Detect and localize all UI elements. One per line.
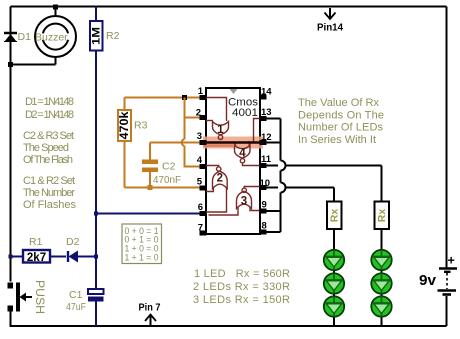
pin 13 stub: [260, 116, 267, 121]
svg-text:3: 3: [241, 196, 247, 208]
svg-text:Pin 7: Pin 7: [139, 303, 161, 314]
svg-text:470nF: 470nF: [153, 174, 181, 186]
IC notch: [230, 89, 238, 94]
pin 8 stub: [260, 230, 267, 235]
svg-text:3 LEDs Rx = 150R: 3 LEDs Rx = 150R: [193, 294, 290, 306]
junction buzzer bottom left rail: [8, 62, 13, 67]
svg-text:The Speed: The Speed: [23, 142, 69, 154]
wire R3 top to pin1 (orange): [125, 97, 201, 99]
pin 6 stub: [200, 211, 207, 216]
svg-text:470k: 470k: [119, 111, 131, 140]
pink highlight band pin3-pin12 net: [203, 137, 263, 149]
LED D5: [324, 296, 344, 316]
Pin14 annotation arrow: [325, 8, 336, 19]
svg-text:C2: C2: [162, 161, 176, 173]
svg-text:47uF: 47uF: [66, 301, 86, 313]
pin 10 stub: [260, 185, 267, 190]
Pin 7 annotation arrow: [145, 315, 156, 326]
svg-text:D2: D2: [66, 236, 80, 248]
wire pin10 to left Rx column: [266, 188, 334, 202]
hop over pin11 wire: [281, 161, 286, 171]
svg-text:9v: 9v: [419, 272, 437, 289]
pin 2 stub: [200, 115, 207, 120]
junction D2/C1 node: [94, 255, 98, 259]
svg-text:1M: 1M: [90, 27, 102, 45]
wire orange down to pin2: [184, 98, 186, 118]
svg-text:8: 8: [262, 221, 267, 232]
svg-text:Of Flashes: Of Flashes: [23, 199, 77, 211]
svg-text:Buzzer: Buzzer: [35, 32, 68, 44]
pin 1 stub: [200, 95, 207, 100]
wire R3/C2 bottom to pin5 (orange): [125, 187, 201, 189]
svg-text:+: +: [448, 254, 455, 268]
gate U1d input risers: [235, 142, 237, 145]
svg-text:R1: R1: [29, 236, 43, 248]
gate U1d output wire to pin11: [243, 163, 260, 166]
svg-text:2: 2: [196, 108, 201, 119]
gate U1d output bubble: [240, 159, 244, 163]
gate U1c (3) body pointing up: [237, 191, 252, 208]
gate U1b output wire to pin4: [206, 166, 219, 168]
gate U1b output bubble: [217, 167, 221, 171]
capacitor C1: [88, 289, 104, 326]
svg-text:Number Of LEDs: Number Of LEDs: [298, 122, 384, 134]
LED D3: [324, 250, 344, 270]
svg-text:1: 1: [217, 124, 224, 136]
svg-text:1 + 1 = 0: 1 + 1 = 0: [125, 253, 159, 264]
svg-text:7: 7: [198, 223, 203, 234]
The Value Of Rx text: [298, 97, 384, 146]
svg-text:11: 11: [261, 154, 272, 165]
svg-text:The Value Of Rx: The Value Of Rx: [298, 97, 380, 109]
svg-text:4: 4: [197, 155, 203, 166]
junction C2 bottom: [148, 185, 153, 190]
svg-text:2 LEDs Rx = 330R: 2 LEDs Rx = 330R: [193, 281, 290, 293]
wire orange down to hop: [184, 118, 186, 140]
diode D1: [4, 33, 17, 42]
gate U1c output bubble: [242, 188, 246, 192]
svg-text:14: 14: [261, 87, 272, 98]
battery BT1 9v: [438, 254, 458, 295]
pin 12 stub: [260, 140, 267, 145]
pin 5 stub: [200, 186, 207, 191]
resistor R3: [118, 98, 131, 188]
LED D7: [371, 273, 391, 293]
wire orange down to pin4: [185, 146, 201, 167]
gate U1c output wire to pin10: [244, 187, 259, 189]
pin 3 stub: [200, 140, 207, 145]
gate number labels: [217, 124, 248, 208]
wire pin13-pin12-pin9-pin8 vertical right: [266, 119, 286, 233]
svg-text:PUSH: PUSH: [33, 280, 47, 314]
svg-text:In Series With It: In Series With It: [298, 134, 376, 146]
svg-text:Pin14: Pin14: [317, 23, 343, 34]
IC U1 CMOS 4001 body: [206, 88, 260, 234]
wire top rail: [11, 6, 447, 8]
pin 11 stub: [260, 163, 267, 168]
svg-text:1 LED Rx = 560R: 1 LED Rx = 560R: [194, 268, 290, 280]
pin 9 stub: [260, 209, 267, 214]
svg-text:Of The Flash: Of The Flash: [23, 154, 73, 166]
gate U1b (2) body pointing up: [213, 171, 228, 188]
hop over pin10 wire: [281, 183, 286, 193]
svg-text:D1 = 1N4148: D1 = 1N4148: [25, 96, 74, 108]
wire R2 to pin6 (blue): [96, 213, 200, 215]
junction orange node: [182, 95, 187, 100]
gate U1a output bubble: [218, 135, 222, 139]
gate U1a (1) body pointing down: [213, 122, 229, 135]
wire right LED column: [381, 229, 383, 326]
pin 14 stub: [260, 95, 267, 100]
svg-text:4001: 4001: [232, 107, 258, 119]
svg-text:5: 5: [197, 177, 203, 188]
wire pin3 to pin12 (black, highlighted): [202, 141, 264, 143]
svg-text:C2 & R3 Set: C2 & R3 Set: [23, 130, 74, 142]
resistor Rx left column: [327, 202, 342, 230]
svg-text:13: 13: [261, 107, 272, 118]
wire right rail upper: [446, 7, 448, 268]
svg-text:D2 = 1N4148: D2 = 1N4148: [25, 109, 74, 121]
LED D4: [324, 273, 344, 293]
svg-text:4: 4: [239, 148, 246, 160]
capacitor C2: [142, 143, 158, 188]
svg-text:Rx: Rx: [376, 209, 388, 223]
svg-text:R3: R3: [134, 120, 148, 132]
svg-text:Rx: Rx: [328, 209, 340, 223]
svg-text:2k7: 2k7: [27, 252, 46, 264]
text notes left: [23, 96, 77, 211]
pin number labels: [196, 86, 273, 234]
svg-text:6: 6: [198, 202, 203, 213]
resistor Rx right column: [375, 202, 390, 230]
wire left rail lower: [11, 312, 447, 327]
wire right rail lower: [446, 296, 448, 326]
truth table: [122, 224, 162, 264]
pin 7 stub: [200, 231, 207, 236]
wire left LED column: [333, 229, 335, 326]
gate U1d input from pin13: [254, 119, 260, 143]
svg-text:1: 1: [198, 86, 204, 97]
buzzer BZ1: [11, 7, 77, 65]
LED table text: [193, 268, 290, 306]
svg-text:C1: C1: [69, 289, 83, 301]
LED D6: [371, 250, 391, 270]
wire pin11 to right Rx column: [266, 166, 382, 202]
svg-text:9: 9: [262, 200, 267, 211]
gates interior, maroon: [206, 98, 260, 216]
svg-text:C1 & R2 Set: C1 & R2 Set: [23, 175, 75, 187]
wire left rail upper: [10, 7, 12, 282]
resistor R1: [11, 250, 67, 264]
junction buzzer top rail: [53, 5, 58, 10]
gate U1c input wires: [209, 208, 239, 216]
wire hop over pin3 wire: [182, 139, 185, 146]
push button SW1: [8, 283, 33, 312]
gate U1a input wire from pin2: [206, 120, 213, 122]
svg-text:2: 2: [217, 173, 223, 185]
svg-text:3: 3: [197, 131, 202, 142]
LED D8: [371, 296, 391, 316]
diode D2: [68, 251, 96, 263]
svg-text:R2: R2: [106, 30, 120, 42]
junction R1 left rail: [9, 255, 13, 259]
junction R2/pin6/C1 node: [94, 212, 98, 216]
resistor R2: [90, 7, 103, 214]
svg-text:The Number: The Number: [23, 187, 75, 199]
pin 4 stub: [200, 164, 207, 169]
gate U1a input wire from pin1: [206, 98, 227, 122]
wire R2 node down to C1: [95, 214, 97, 290]
wire C2 top to pin3 (orange): [150, 142, 200, 144]
svg-text:D1: D1: [18, 31, 32, 43]
gate U1d (4) body pointing down: [235, 145, 251, 158]
svg-text:Depends On The: Depends On The: [298, 110, 384, 122]
gate U1b input wires: [206, 188, 213, 192]
